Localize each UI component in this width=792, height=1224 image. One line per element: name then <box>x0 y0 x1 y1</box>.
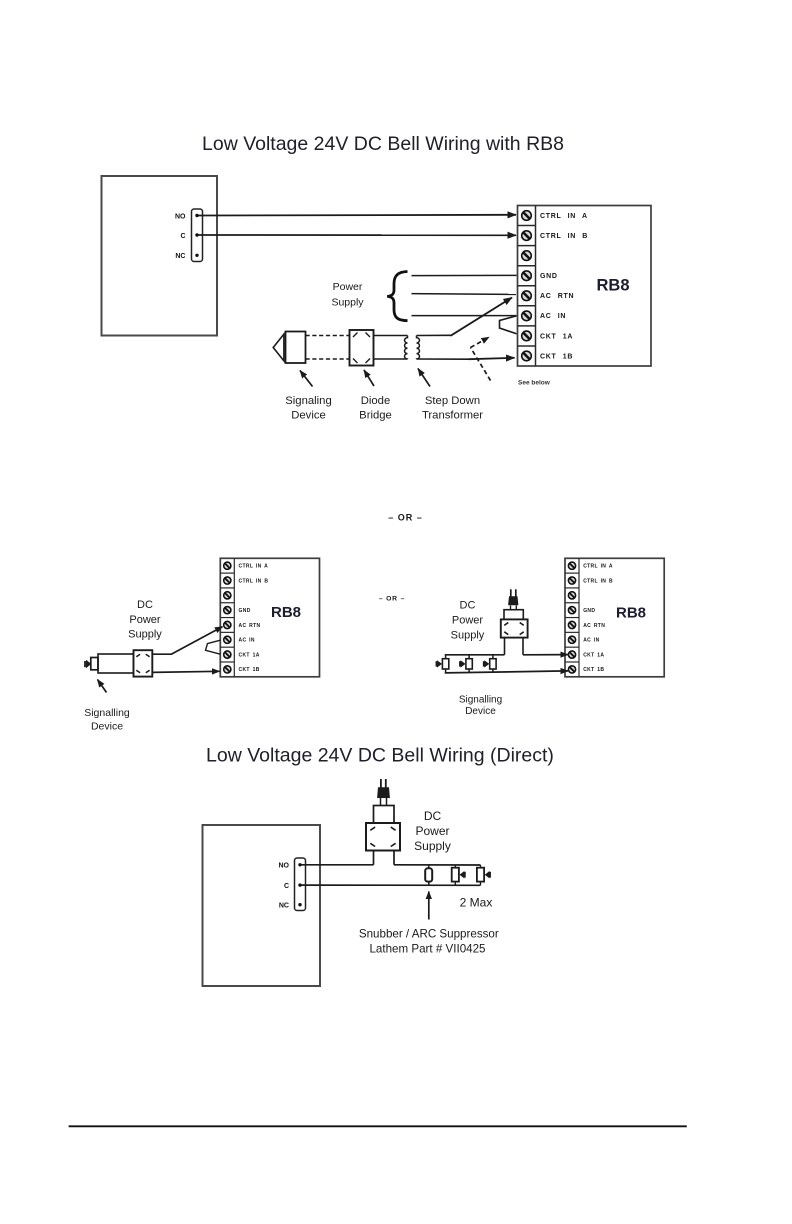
svg-text:NC: NC <box>279 903 289 910</box>
svg-text:C: C <box>284 883 289 890</box>
svg-text:CTRL IN A: CTRL IN A <box>239 564 269 570</box>
svg-text:Supply: Supply <box>128 629 162 641</box>
svg-text:Signaling: Signaling <box>285 395 331 407</box>
svg-text:Diode: Diode <box>361 395 391 407</box>
svg-text:Supply: Supply <box>331 297 364 309</box>
svg-text:CKT 1A: CKT 1A <box>583 652 604 658</box>
svg-text:RB8: RB8 <box>597 277 630 295</box>
svg-text:DC: DC <box>424 809 442 823</box>
svg-text:CTRL IN B: CTRL IN B <box>540 233 588 240</box>
svg-text:CTRL IN A: CTRL IN A <box>583 564 613 570</box>
svg-text:NO: NO <box>175 213 186 220</box>
svg-text:Lathem Part # VII0425: Lathem Part # VII0425 <box>369 942 485 955</box>
svg-text:Power: Power <box>452 615 484 627</box>
svg-text:AC IN: AC IN <box>540 313 566 320</box>
svg-text:Device: Device <box>291 410 326 422</box>
svg-text:CTRL IN B: CTRL IN B <box>583 578 613 584</box>
svg-text:Low Voltage 24V DC Bell Wiring: Low Voltage 24V DC Bell Wiring (Direct) <box>206 745 554 767</box>
svg-text:CKT 1B: CKT 1B <box>583 667 604 673</box>
svg-text:NC: NC <box>175 253 185 260</box>
svg-text:AC RTN: AC RTN <box>239 623 261 629</box>
svg-text:Transformer: Transformer <box>422 410 483 422</box>
svg-text:DC: DC <box>460 600 476 612</box>
svg-text:– OR –: – OR – <box>379 596 405 603</box>
svg-text:Device: Device <box>91 721 123 733</box>
svg-text:GND: GND <box>583 608 595 614</box>
svg-text:AC IN: AC IN <box>239 638 255 644</box>
svg-text:Step Down: Step Down <box>425 395 480 407</box>
svg-text:CKT 1A: CKT 1A <box>239 652 260 658</box>
svg-text:CKT 1B: CKT 1B <box>540 353 573 360</box>
svg-text:Low Voltage 24V DC Bell Wiring: Low Voltage 24V DC Bell Wiring with RB8 <box>202 133 564 155</box>
svg-text:DC: DC <box>137 599 153 611</box>
svg-text:RB8: RB8 <box>271 604 301 621</box>
svg-text:Bridge: Bridge <box>359 410 392 422</box>
svg-text:Supply: Supply <box>414 839 451 853</box>
svg-text:Power: Power <box>129 614 161 626</box>
svg-text:Supply: Supply <box>451 630 485 642</box>
svg-text:CTRL IN B: CTRL IN B <box>239 578 269 584</box>
svg-text:CTRL IN A: CTRL IN A <box>540 213 588 220</box>
svg-text:CKT 1B: CKT 1B <box>239 667 260 673</box>
svg-text:GND: GND <box>540 273 558 280</box>
svg-text:NO: NO <box>279 863 290 870</box>
svg-text:– OR –: – OR – <box>388 513 423 523</box>
svg-text:Power: Power <box>333 281 363 293</box>
svg-text:Device: Device <box>465 706 496 717</box>
svg-text:2 Max: 2 Max <box>460 895 493 909</box>
svg-text:C: C <box>180 233 185 240</box>
svg-text:AC IN: AC IN <box>583 638 599 644</box>
svg-text:Snubber / ARC Suppressor: Snubber / ARC Suppressor <box>359 928 499 941</box>
svg-text:RB8: RB8 <box>616 605 646 622</box>
svg-text:AC RTN: AC RTN <box>583 623 605 629</box>
svg-text:Power: Power <box>415 824 449 838</box>
svg-text:GND: GND <box>239 608 251 614</box>
svg-text:Signalling: Signalling <box>84 707 130 719</box>
svg-text:See below: See below <box>518 380 551 387</box>
svg-text:CKT 1A: CKT 1A <box>540 333 573 340</box>
svg-text:AC RTN: AC RTN <box>540 293 574 300</box>
svg-text:Signalling: Signalling <box>459 695 502 706</box>
